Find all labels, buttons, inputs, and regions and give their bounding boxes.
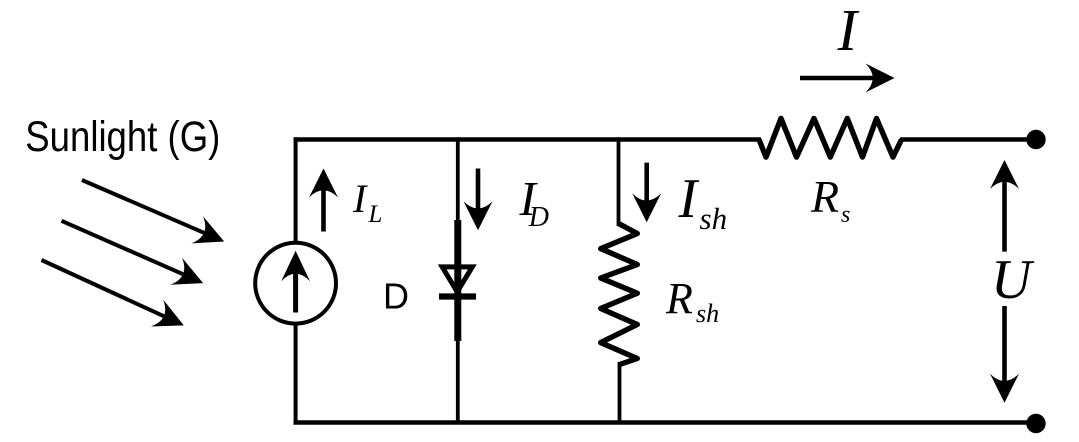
arrow indicator Ish (down) <box>632 163 661 223</box>
diode D <box>439 220 476 341</box>
wire top Rs-to-terminal segment <box>900 137 1034 141</box>
wire top left-to-Rs segment <box>294 137 762 141</box>
svg-text:sh: sh <box>696 299 719 328</box>
terminal node top (dot) <box>1026 130 1045 149</box>
svg-text:I: I <box>837 0 860 63</box>
svg-text:R: R <box>665 274 693 323</box>
sunlight arrow 2 <box>62 221 204 285</box>
current source arrow <box>281 251 310 313</box>
wire shunt branch lower <box>618 362 622 424</box>
svg-text:Sunlight (G): Sunlight (G) <box>25 113 220 161</box>
arrow indicator U up (toward top terminal) <box>990 160 1019 252</box>
sunlight arrow 1 <box>82 180 224 243</box>
terminal node bottom (dot) <box>1026 414 1045 433</box>
resistor Rsh (zigzag) <box>601 224 638 365</box>
svg-text:I: I <box>678 168 700 230</box>
current source IL (circle) <box>255 243 336 324</box>
arrow indicator ID (down) <box>464 169 493 231</box>
sunlight arrow 3 <box>42 260 184 327</box>
svg-text:U: U <box>991 249 1035 311</box>
wire left lower <box>294 324 298 424</box>
wire bottom <box>294 420 1035 424</box>
arrow indicator IL (up) <box>309 169 338 232</box>
wire shunt branch upper <box>617 137 621 226</box>
svg-text:L: L <box>368 201 383 228</box>
svg-text:R: R <box>810 171 839 222</box>
wire diode branch lower <box>456 339 460 424</box>
svg-text:sh: sh <box>700 201 728 236</box>
svg-text:s: s <box>841 202 850 228</box>
svg-text:D: D <box>383 276 409 317</box>
arrow indicator U down (toward bottom terminal) <box>990 306 1019 403</box>
resistor Rs (zigzag) <box>759 118 902 157</box>
arrow indicator I (right, above Rs) <box>800 64 895 93</box>
wire left upper <box>294 137 298 242</box>
wire diode branch upper <box>456 137 460 224</box>
svg-text:D: D <box>528 202 549 233</box>
svg-text:I: I <box>352 176 368 221</box>
